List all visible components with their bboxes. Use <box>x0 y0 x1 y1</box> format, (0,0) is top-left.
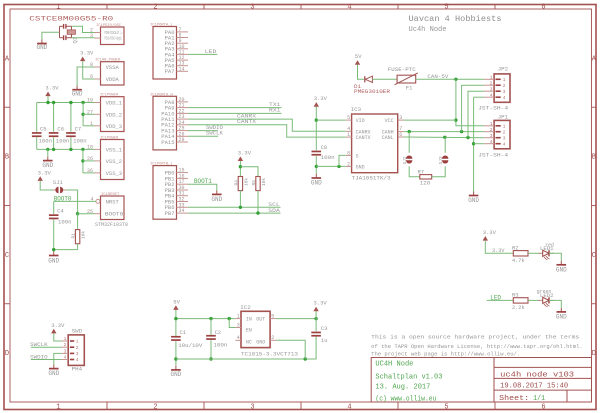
svg-text:4: 4 <box>503 141 506 147</box>
wire VDD branch down <box>82 103 84 126</box>
svg-text:VSSA: VSSA <box>106 64 120 71</box>
power 3.3V (VDDA) <box>80 50 94 62</box>
svg-text:6: 6 <box>541 3 545 11</box>
fuse F1 FUSE-PTC <box>388 66 418 92</box>
wire VSSA to GND <box>77 67 94 86</box>
wire C8 to GND <box>315 156 317 174</box>
svg-text:3: 3 <box>64 348 67 354</box>
svg-text:1/1: 1/1 <box>533 395 545 403</box>
svg-text:SJ2: SJ2 <box>402 156 408 164</box>
node pullup junction <box>239 165 242 168</box>
wire CANTX net <box>188 125 346 137</box>
svg-text:C7: C7 <box>75 125 82 132</box>
node 5V junction <box>174 317 177 320</box>
svg-text:D: D <box>5 350 9 358</box>
svg-text:3: 3 <box>490 86 493 92</box>
wire VSS branch down <box>82 149 84 173</box>
node 3.3V junction <box>314 317 317 320</box>
svg-text:4: 4 <box>76 357 79 363</box>
wire VCC to CAN-5V <box>404 119 456 121</box>
solder jumper SJ2 <box>406 156 412 164</box>
svg-text:TJA1051TK/3: TJA1051TK/3 <box>352 175 391 182</box>
wire CANH to SJ2 <box>408 132 410 153</box>
wire 5V to D1 <box>358 65 365 80</box>
svg-text:GND: GND <box>36 44 47 51</box>
MCU gate IC1 RESET <box>87 193 124 220</box>
wire C6 bottom drop <box>53 137 55 149</box>
LED LED2 (green) <box>538 297 554 307</box>
ground GND (CAN) <box>468 192 479 205</box>
svg-text:1: 1 <box>503 77 506 83</box>
node VSS_2 junction <box>81 159 84 162</box>
svg-text:C3: C3 <box>321 325 328 332</box>
wire S to GND <box>339 155 346 166</box>
svg-text:34: 34 <box>179 208 185 214</box>
wire BOOT0 to R1 <box>77 214 79 230</box>
svg-text:4: 4 <box>237 335 240 341</box>
power 3.3V (IC3) <box>314 95 328 107</box>
svg-text:2: 2 <box>503 83 506 89</box>
connector JP1 JST-SH-4 <box>478 114 510 159</box>
wire to VDD_2 <box>83 113 94 115</box>
node VSS junction 4 <box>81 148 84 151</box>
resonator Q1 <box>60 24 79 44</box>
wire NRST net <box>54 200 96 202</box>
svg-text:SWCLK: SWCLK <box>206 130 224 137</box>
wire 3.3V stem IC3 <box>315 107 317 151</box>
svg-text:GND: GND <box>311 179 322 186</box>
ground GND (BOOT1) <box>211 190 222 203</box>
wire VSS rail <box>37 148 95 150</box>
svg-text:5V: 5V <box>173 298 180 305</box>
MCU gate IC1 PORTA_L <box>150 24 188 80</box>
wire C7 bottom drop <box>70 137 72 149</box>
svg-text:GND: GND <box>48 258 59 265</box>
svg-text:2: 2 <box>490 80 493 86</box>
node BOOT0 junction <box>76 212 79 215</box>
svg-text:5: 5 <box>271 314 274 320</box>
capacitor C1 <box>171 336 181 341</box>
node EN junction <box>228 317 231 320</box>
svg-text:B: B <box>592 154 596 162</box>
svg-text:SDA: SDA <box>268 207 280 214</box>
svg-text:R4: R4 <box>233 180 239 186</box>
node CANH junction JP2 <box>460 130 463 133</box>
wire regulator GND rail <box>176 337 316 359</box>
svg-text:of the TAPR Open Hardware Lice: of the TAPR Open Hardware License, http:… <box>371 344 583 350</box>
svg-text:2: 2 <box>503 129 506 135</box>
connector SWD (PH4) <box>61 327 84 372</box>
wire BOOT1 net <box>188 184 217 190</box>
ground GND (SWD) <box>48 365 59 377</box>
ground GND (VSSA) <box>72 86 83 98</box>
node C2 junction top <box>209 317 212 320</box>
svg-text:SJ3: SJ3 <box>438 156 444 164</box>
wire LED net to R3 <box>487 299 514 301</box>
svg-text:VSS_1: VSS_1 <box>106 147 123 154</box>
svg-text:2: 2 <box>76 345 79 351</box>
svg-text:3.3V: 3.3V <box>51 322 65 329</box>
svg-text:GND: GND <box>48 370 59 377</box>
capacitor C2 <box>206 335 216 340</box>
svg-text:C1: C1 <box>180 329 187 336</box>
resistor R5 10k <box>256 177 260 191</box>
svg-text:BOOT0: BOOT0 <box>105 211 124 218</box>
connector JP2 JST-SH-4 <box>478 66 510 112</box>
wire C5 top drop <box>36 103 38 132</box>
wire CANH to JP2 pin2 <box>462 85 485 131</box>
svg-text:IC3: IC3 <box>351 106 362 113</box>
svg-text:VDD_2: VDD_2 <box>106 111 123 118</box>
wire CANL to JP2 pin3 <box>468 91 484 137</box>
node S junction <box>337 165 340 168</box>
svg-text:3.3V: 3.3V <box>314 95 328 102</box>
svg-text:LED1: LED1 <box>540 245 554 252</box>
svg-text:100n: 100n <box>58 218 72 225</box>
MCU gate IC1 PDIO/OSC <box>90 23 124 45</box>
wire CAN GND drop <box>473 97 475 191</box>
ground GND (LED1) <box>556 261 567 274</box>
svg-text:JP2: JP2 <box>498 66 509 73</box>
svg-text:1: 1 <box>490 74 493 80</box>
wire SCL net <box>188 206 281 208</box>
svg-text:C8: C8 <box>321 144 328 151</box>
resistor R4 10k <box>238 177 242 191</box>
wire C6 top drop <box>53 103 55 132</box>
svg-text:R5: R5 <box>251 180 257 186</box>
MCU gate IC1 AN_POWER <box>90 59 124 85</box>
wire R5 to SDA <box>257 191 259 214</box>
solder jumper SJ3 <box>442 156 448 164</box>
svg-text:PD0/OSC&lt;=: PD0/OSC&lt;= <box>105 31 123 36</box>
node VDD junction 1 <box>46 101 49 104</box>
wire R2 to LED1 <box>528 252 543 254</box>
wire R1 to GND rail <box>54 244 78 250</box>
svg-text:GND: GND <box>256 340 265 346</box>
svg-text:VSS_3: VSS_3 <box>106 170 123 177</box>
wire C4 to GND <box>53 220 55 252</box>
svg-text:C6: C6 <box>57 125 64 132</box>
svg-text:3.3V: 3.3V <box>238 149 252 156</box>
wire XTAL1 to PD0 <box>72 26 95 32</box>
svg-text:2: 2 <box>64 342 67 348</box>
wire VDD rail <box>37 102 95 104</box>
resistor R7 <box>420 175 432 179</box>
svg-text:5: 5 <box>444 404 448 412</box>
svg-text:C: C <box>592 252 596 260</box>
svg-text:VDDA: VDDA <box>106 76 120 83</box>
node CANL junction SJ3 <box>443 136 446 139</box>
wire to VSS_2 <box>83 160 95 162</box>
wire 5V stem / C1 top <box>175 310 177 336</box>
node VDD junction 2 <box>52 101 55 104</box>
wire R3 to LED2 <box>528 299 543 301</box>
wire C1 bottom to GND <box>175 341 177 366</box>
wire SJ3 to CANL <box>444 137 446 153</box>
wire GND drop <box>47 149 49 156</box>
node VIO junction <box>315 118 318 121</box>
svg-text:5: 5 <box>444 3 448 11</box>
svg-text:3.3V: 3.3V <box>45 85 59 92</box>
svg-text:13. Aug. 2017: 13. Aug. 2017 <box>375 384 430 392</box>
svg-text:PA7: PA7 <box>165 68 175 75</box>
node SCL junction <box>239 206 242 209</box>
svg-text:GND: GND <box>468 197 479 204</box>
wire C2 bottom drop <box>210 340 212 359</box>
svg-text:100n: 100n <box>321 154 335 161</box>
svg-text:uc4h node v103: uc4h node v103 <box>500 371 574 379</box>
svg-text:JST-SH-4: JST-SH-4 <box>478 151 509 158</box>
svg-text:4: 4 <box>490 139 493 145</box>
svg-text:4.7k: 4.7k <box>512 257 525 264</box>
svg-text:VSS_2: VSS_2 <box>106 158 123 165</box>
svg-text:1: 1 <box>503 124 506 130</box>
svg-text:4: 4 <box>490 92 493 98</box>
IC3 CAN transceiver TJA1051TK/3 <box>346 106 404 182</box>
svg-text:PH4: PH4 <box>72 366 83 373</box>
svg-text:IN: IN <box>246 317 252 323</box>
svg-text:120: 120 <box>420 180 431 187</box>
svg-text:2: 2 <box>347 161 350 167</box>
wire C2 top drop <box>210 319 212 335</box>
wire 3.3V to R2 <box>485 241 513 254</box>
power 3.3V (SJ1) <box>38 169 52 181</box>
node CANL junction JP2 <box>466 136 469 139</box>
title block <box>371 358 591 404</box>
svg-text:4: 4 <box>64 355 67 361</box>
wire NRST to C4 <box>53 201 55 214</box>
svg-text:1: 1 <box>347 132 350 138</box>
svg-text:VDD_3: VDD_3 <box>106 123 123 130</box>
svg-text:3: 3 <box>250 3 254 11</box>
svg-text:1: 1 <box>64 336 67 342</box>
svg-text:CAN-5V: CAN-5V <box>427 73 449 80</box>
svg-text:GND: GND <box>211 196 222 203</box>
MCU gate IC1 POWER (VDD) <box>87 94 124 132</box>
svg-text:3.3V: 3.3V <box>314 300 328 307</box>
svg-text:2: 2 <box>153 3 157 11</box>
svg-text:IC2: IC2 <box>240 304 251 311</box>
node VDD junction 3 <box>69 101 72 104</box>
svg-text:GND: GND <box>170 371 181 378</box>
power 3.3V (pullups) <box>238 149 252 161</box>
power 5V (CAN in) <box>355 53 362 65</box>
svg-text:LED2: LED2 <box>540 292 554 299</box>
node CAN GND junction <box>472 142 475 145</box>
wire CANRX net <box>188 119 346 131</box>
node VDD junction 4 <box>81 101 84 104</box>
svg-text:19.08.2017 15:40: 19.08.2017 15:40 <box>500 383 568 391</box>
svg-text:PD1/OSC=&gt;: PD1/OSC=&gt; <box>105 37 123 42</box>
svg-text:10k: 10k <box>261 178 267 186</box>
wire R4 to SCL <box>239 191 241 208</box>
svg-text:PA15: PA15 <box>161 139 174 146</box>
wire GND to IC3 <box>316 165 345 167</box>
wire LED1 to GND <box>549 253 561 260</box>
svg-text:D: D <box>592 350 596 358</box>
svg-text:CANTX: CANTX <box>356 135 371 141</box>
node VCC junction <box>454 118 457 121</box>
svg-text:100n: 100n <box>39 137 53 144</box>
wire 3.3V to SJ1 <box>40 181 53 190</box>
svg-text:10u/10V: 10u/10V <box>178 342 203 349</box>
wire 3.3V to R5 <box>240 167 258 177</box>
wire SDA net <box>188 212 281 214</box>
svg-text:TC1015-3.3VCT713: TC1015-3.3VCT713 <box>241 351 298 358</box>
svg-text:3.3V: 3.3V <box>483 229 497 236</box>
wire SJ2 to R7 <box>409 166 420 177</box>
svg-text:VIO: VIO <box>356 118 365 124</box>
ground GND (regulator) <box>170 366 181 378</box>
node VSS junction 2 <box>52 148 55 151</box>
wire D1 to F1 <box>372 78 397 80</box>
node GND rail junction 2 <box>209 357 212 360</box>
node C4/R1 junction <box>52 248 55 251</box>
svg-text:14: 14 <box>179 66 185 72</box>
svg-text:STM32F103T8: STM32F103T8 <box>95 221 128 228</box>
svg-text:LED: LED <box>205 48 217 55</box>
capacitor C8 <box>312 151 322 156</box>
svg-text:4: 4 <box>347 404 351 412</box>
ground GND (C8) <box>311 174 322 186</box>
svg-text:4: 4 <box>347 3 351 11</box>
svg-text:This is a open source hardware: This is a open source hardware project, … <box>371 335 579 341</box>
ground GND (LED2) <box>556 308 567 321</box>
wire 3.3V to R4 <box>239 161 241 177</box>
svg-text:4: 4 <box>503 95 506 101</box>
resistor R2 <box>513 251 528 256</box>
svg-text:2.2k: 2.2k <box>512 304 525 311</box>
svg-text:100n: 100n <box>56 137 70 144</box>
wire CANH net <box>404 131 485 133</box>
svg-text:29: 29 <box>179 137 185 143</box>
svg-text:FUSE-PTC: FUSE-PTC <box>388 66 417 73</box>
diode D1 PMEG3010ER <box>354 76 391 95</box>
node GND rail junction 3 <box>304 357 307 360</box>
MCU gate IC1 POWER (VSS) <box>87 137 124 180</box>
ground GND (Q1) <box>36 40 47 52</box>
svg-text:100n: 100n <box>73 137 87 144</box>
svg-text:R7: R7 <box>418 168 425 175</box>
wire XTAL2 to PD1 <box>72 37 95 39</box>
wire R7 to SJ3 <box>432 166 446 177</box>
LED LED1 (red) <box>538 250 554 260</box>
svg-text:EN: EN <box>246 328 252 334</box>
svg-text:F1: F1 <box>406 85 413 92</box>
svg-text:JST-SH-4: JST-SH-4 <box>478 104 509 111</box>
svg-text:CANTX: CANTX <box>237 118 257 125</box>
svg-text:C: C <box>5 252 9 260</box>
wire SWD pin3 to GND <box>54 353 62 364</box>
svg-text:1: 1 <box>56 404 60 412</box>
power 3.3V (SWD) <box>51 322 65 334</box>
svg-text:2: 2 <box>490 127 493 133</box>
svg-text:3: 3 <box>76 351 79 357</box>
svg-text:VDD_1: VDD_1 <box>106 100 123 107</box>
capacitor C5 <box>32 132 42 137</box>
svg-text:Schaltplan v1.03: Schaltplan v1.03 <box>375 373 442 381</box>
wire SWCLK net <box>188 135 218 137</box>
svg-text:3: 3 <box>503 135 506 141</box>
svg-text:10k: 10k <box>81 231 87 239</box>
wire CANL net <box>404 136 485 139</box>
capacitor C6 <box>49 132 59 137</box>
svg-text:SWD: SWD <box>72 327 83 334</box>
wire 3.3V to SWD pin1 <box>54 333 62 341</box>
svg-text:NC: NC <box>246 340 252 346</box>
wire GND to JP2 pin4 <box>474 96 485 98</box>
svg-text:CSTCE8M00G55-R0: CSTCE8M00G55-R0 <box>29 15 114 22</box>
power 3.3V (LED1) <box>483 229 497 241</box>
capacitor C7 <box>66 132 76 137</box>
svg-text:SJ1: SJ1 <box>53 179 64 186</box>
svg-text:C4: C4 <box>57 208 64 215</box>
svg-text:3: 3 <box>399 115 402 121</box>
svg-text:6: 6 <box>399 132 402 138</box>
svg-text:GND: GND <box>42 162 53 169</box>
svg-text:Uc4h Node: Uc4h Node <box>409 26 447 34</box>
svg-text:1: 1 <box>56 3 60 11</box>
node CANH junction SJ2 <box>408 130 411 133</box>
resistor R3 <box>513 298 528 303</box>
wire to VSS_3 <box>83 172 95 174</box>
svg-text:GND: GND <box>72 91 83 98</box>
svg-text:1: 1 <box>490 121 493 127</box>
svg-text:CANL: CANL <box>382 135 394 141</box>
svg-text:5: 5 <box>347 115 350 121</box>
svg-text:RX1: RX1 <box>269 107 281 114</box>
svg-text:Sheet:: Sheet: <box>499 395 529 403</box>
svg-text:OUT: OUT <box>256 317 265 323</box>
svg-text:8: 8 <box>347 150 350 156</box>
svg-text:3.3V: 3.3V <box>492 247 505 254</box>
wire TX1 net <box>188 107 282 109</box>
svg-text:R1: R1 <box>71 233 77 239</box>
wire SWCLK to SWD pin2 <box>31 346 62 348</box>
svg-text:5V: 5V <box>355 53 362 60</box>
resistor R1 10k <box>75 230 79 244</box>
svg-text:1u: 1u <box>321 337 328 344</box>
capacitor C4 <box>49 214 59 219</box>
wire 3.3V stem / C3 top <box>315 311 317 331</box>
svg-text:The project web page is http:/: The project web page is http://www.olliw… <box>371 351 520 357</box>
svg-text:100n: 100n <box>213 341 227 348</box>
wire OUT to 3.3V <box>276 318 316 320</box>
svg-text:1: 1 <box>76 339 79 345</box>
wire LED net <box>188 53 217 55</box>
wire 3.3V stem <box>47 96 49 102</box>
svg-text:(c) www.olliw.eu: (c) www.olliw.eu <box>375 395 436 403</box>
power 3.3V (regulator out) <box>313 300 327 312</box>
wire LED2 to GND <box>549 300 561 308</box>
svg-text:3.3V: 3.3V <box>38 169 52 176</box>
node SDA junction <box>256 211 259 214</box>
svg-text:S: S <box>356 153 359 159</box>
node CAN-5V junction <box>454 78 457 81</box>
svg-text:PB7: PB7 <box>165 210 175 217</box>
svg-text:C2: C2 <box>215 329 222 336</box>
wire C5 bottom drop <box>36 137 38 149</box>
wire SWDIO net <box>188 130 218 132</box>
wire GND to JP1 pin4 <box>474 143 485 145</box>
wire CAN-5V net <box>416 78 485 80</box>
wire IN to EN <box>229 319 235 328</box>
ground GND (VSS) <box>42 157 53 169</box>
svg-text:1: 1 <box>237 314 240 320</box>
wire to VDD_3 <box>83 125 94 127</box>
wire SWDIO to SWD pin4 <box>31 359 62 361</box>
svg-text:Uavcan 4 Hobbiests: Uavcan 4 Hobbiests <box>409 14 502 24</box>
